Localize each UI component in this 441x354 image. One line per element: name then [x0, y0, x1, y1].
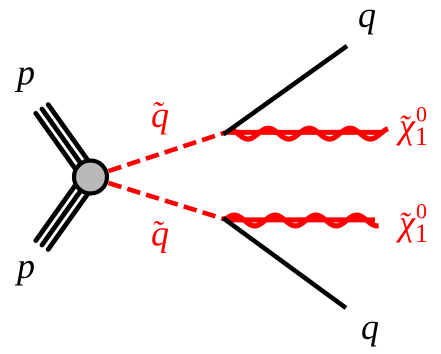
svg-text:q: q — [361, 307, 379, 347]
svg-text:p: p — [14, 246, 35, 286]
svg-text:p: p — [14, 53, 35, 93]
svg-text:q: q — [358, 0, 376, 35]
svg-text:1: 1 — [415, 122, 428, 151]
svg-text:1: 1 — [415, 219, 428, 248]
